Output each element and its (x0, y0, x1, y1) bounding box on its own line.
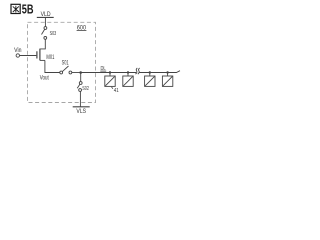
wire S03 to drain (40, 39, 45, 49)
leader to 41 (112, 87, 113, 89)
svg-text:5B: 5B (22, 2, 34, 17)
label DL underline (100, 70, 106, 72)
pixel cell 2 (123, 71, 133, 86)
wire S02 stem upper (80, 73, 82, 82)
switch S02 (77, 82, 82, 92)
wire source to S01 (45, 60, 60, 72)
label 600 underline (77, 29, 87, 31)
node junction (79, 71, 82, 74)
switch S01 (60, 66, 72, 74)
wire S01 to junction (72, 72, 81, 74)
wire DL left segment (81, 72, 136, 74)
svg-text:M01: M01 (46, 55, 54, 61)
wire DL right segment (140, 71, 181, 73)
power rail VLS (73, 106, 90, 108)
svg-text:41: 41 (114, 88, 119, 94)
svg-text:S02: S02 (82, 86, 89, 92)
svg-text:S03: S03 (50, 31, 57, 37)
transistor M01 (37, 49, 45, 61)
svg-text:Vout: Vout (40, 76, 49, 82)
pixel cell 1 (105, 71, 115, 86)
svg-text:VLS: VLS (76, 108, 86, 115)
wire gate (20, 55, 37, 57)
dashed block 600 (28, 22, 96, 102)
svg-text:DL: DL (101, 66, 106, 72)
pixel cell 3 (145, 71, 155, 86)
pixel cell 4 (162, 71, 172, 86)
power rail VLD (37, 17, 54, 26)
break marks (136, 68, 140, 74)
wire S02 to VLS (79, 91, 81, 106)
svg-text:VLD: VLD (41, 12, 52, 18)
terminal Vin (16, 54, 19, 57)
figure label 図5B (11, 2, 34, 17)
switch S03 (42, 27, 47, 40)
svg-text:Vin: Vin (14, 48, 21, 54)
svg-text:S01: S01 (62, 61, 69, 67)
svg-text:600: 600 (77, 24, 86, 31)
